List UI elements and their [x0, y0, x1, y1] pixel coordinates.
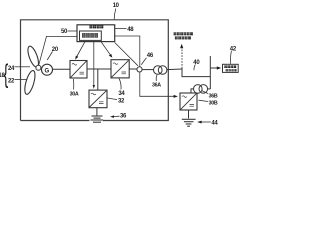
svg-text:46: 46 — [147, 53, 154, 59]
svg-text:34: 34 — [118, 91, 125, 97]
leader arrow for 36 — [113, 115, 120, 117]
svg-text:10: 10 — [113, 3, 120, 9]
node 46 — [137, 67, 142, 72]
leader for 32 — [108, 98, 118, 100]
label 36B — [209, 93, 218, 99]
power system box 42 — [223, 64, 239, 72]
svg-text:30A: 30A — [70, 91, 79, 97]
svg-text:36: 36 — [120, 113, 127, 119]
svg-text:20: 20 — [52, 47, 59, 53]
label 30A — [70, 91, 79, 97]
leader for 36B — [202, 91, 209, 94]
leader for 40 — [194, 65, 195, 71]
leader for 48 — [115, 28, 127, 30]
turbine blade 22 (lower) — [23, 70, 37, 96]
leader for 30A — [72, 79, 74, 90]
converter 30A — [70, 61, 87, 79]
svg-text:36B: 36B — [209, 93, 218, 99]
svg-text:22: 22 — [8, 78, 15, 84]
control wire to rotor hub — [39, 36, 77, 64]
riser at junction to line 40 — [209, 56, 211, 89]
svg-text:36A: 36A — [152, 82, 161, 88]
leader arrow for 44 — [202, 121, 211, 123]
wire converter 32 to battery 36 — [96, 108, 98, 116]
power line 40 lower jog — [182, 69, 210, 77]
svg-text:G: G — [45, 68, 50, 74]
wire 30B to ground 44 — [188, 110, 190, 118]
label 30B — [209, 100, 218, 106]
label 42 — [230, 46, 237, 52]
leader for 46 — [141, 58, 146, 65]
wire line 40 to power system 42 — [210, 67, 217, 69]
svg-text:42: 42 — [230, 46, 237, 52]
leader for 30B — [199, 100, 209, 101]
control arrow to converter 34 — [101, 42, 110, 55]
label 20 — [52, 47, 59, 53]
wire 36B to converter 30B — [191, 89, 194, 93]
junction wire down to converter 32 — [97, 69, 99, 90]
svg-text:30B: 30B — [209, 100, 218, 106]
label 24 — [8, 66, 15, 72]
svg-text:50: 50 — [61, 29, 68, 35]
system frame 10 — [21, 20, 169, 121]
converter 34 — [111, 60, 129, 78]
label 34 — [118, 91, 125, 97]
control sense wire to node 46 — [115, 36, 140, 67]
control wire node 46 to converter 30B — [140, 72, 174, 96]
label 48 — [127, 27, 134, 33]
svg-text:40: 40 — [193, 60, 200, 66]
control unit 48 — [77, 25, 115, 42]
shaft wire hub to generator — [40, 67, 43, 69]
ground 44 — [182, 119, 196, 126]
wire 36A to grid junction — [167, 68, 182, 71]
brace for rotor 18 — [4, 60, 9, 89]
leader for 34 — [119, 79, 121, 90]
wire 30A to 34 — [87, 68, 111, 70]
label 36A — [152, 82, 161, 88]
svg-text:{: { — [4, 60, 9, 89]
wire node 46 to transformer 36A — [142, 69, 153, 71]
wire 34 to node 46 — [129, 68, 137, 70]
stub wire riser to 36B — [208, 88, 211, 90]
label 10 — [113, 3, 120, 9]
storage unit 50 (inner box) — [80, 31, 102, 40]
generator G — [42, 64, 53, 75]
leader for 42 — [230, 51, 231, 64]
transformer 36B — [194, 85, 203, 94]
text: power from other wind power devices — [174, 32, 193, 39]
label 36 — [120, 113, 127, 119]
control arrow to converter 30A — [77, 42, 85, 57]
transformer 36A — [154, 66, 163, 75]
control arrow to converter 32 — [93, 42, 95, 86]
label 44 — [211, 120, 218, 126]
label 46 — [147, 53, 154, 59]
svg-text:24: 24 — [8, 66, 15, 72]
converter 32 — [89, 90, 107, 108]
battery 36 — [91, 116, 104, 122]
svg-text:48: 48 — [127, 27, 134, 33]
leader for 36A — [155, 75, 158, 81]
label 40 — [193, 60, 200, 66]
control wire to node 46 (diagonal) — [115, 43, 138, 66]
leader for 10 — [114, 9, 116, 20]
incoming power dashed arrow (from other wind devices) — [181, 48, 183, 69]
rotor hub 20 — [36, 65, 41, 70]
turbine blade 24 (upper) — [26, 45, 41, 68]
svg-text:44: 44 — [211, 120, 218, 126]
leader for 50 — [68, 30, 78, 32]
converter 30B — [180, 93, 197, 110]
leader for 22 — [15, 79, 28, 81]
label 50 — [61, 29, 68, 35]
leader for 24 — [15, 66, 31, 68]
label 22 — [8, 78, 15, 84]
label 32 — [118, 98, 125, 104]
leader for 20 — [47, 52, 52, 61]
svg-text:32: 32 — [118, 98, 125, 104]
wire generator to converter 30A — [53, 68, 71, 70]
label 18 — [0, 73, 5, 79]
